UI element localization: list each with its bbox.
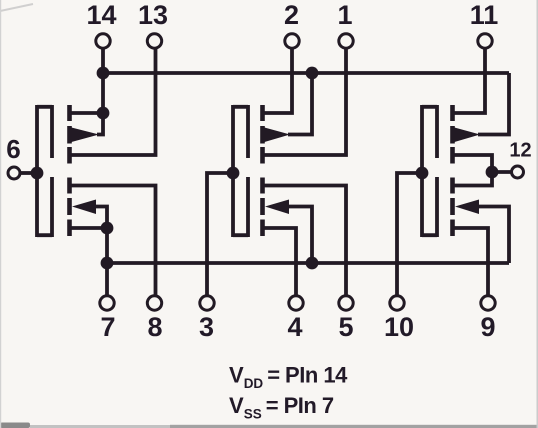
svg-text:VSS=PIn 7: VSS=PIn 7 (229, 393, 334, 422)
transistor N3 channel bars (450, 178, 455, 237)
wire N1 drain to pin 8 (70, 186, 156, 296)
svg-text:10: 10 (384, 312, 414, 342)
transistor P1 body arrow (72, 128, 100, 143)
svg-text:1: 1 (337, 0, 352, 30)
wire P2 drain to pin 1 (263, 49, 347, 155)
node VDD-mid junction dot (306, 67, 319, 80)
wire pin 6 to gate A (21, 171, 37, 175)
transistor P3 channel bars (450, 105, 455, 164)
wire node OUT to pin 12 (492, 170, 511, 174)
wire pin14 to node A (101, 49, 105, 113)
wire N3 body tie to VSS rail end (477, 207, 509, 264)
node VSS-left junction dot (101, 257, 114, 270)
pin 5 terminal circle (339, 296, 353, 310)
transistor N1 body arrow (72, 200, 96, 215)
svg-text:6: 6 (6, 134, 20, 164)
wire P3 body tie to VDD rail end (478, 73, 509, 135)
VDD rail wire (103, 71, 509, 75)
pin 9 terminal circle (481, 296, 495, 310)
pin 4 terminal circle (289, 296, 303, 310)
op P2 gate bracket (pair B) (233, 105, 248, 237)
svg-text:11: 11 (470, 0, 499, 30)
wire node OUT to N3 drain (453, 172, 493, 186)
pin 2 terminal circle (285, 34, 299, 48)
wire N3 source to pin 9 (453, 228, 489, 295)
pin 3 terminal circle (200, 296, 214, 310)
transistor N3 body arrow (455, 200, 479, 215)
pin 1 terminal circle (339, 34, 353, 48)
transistor P3 body arrow (455, 128, 481, 143)
transistor N2 channel bars (260, 178, 265, 237)
svg-text:2: 2 (284, 0, 299, 30)
wire P1 source lead (70, 111, 104, 115)
wire P3 source to pin 11 (453, 49, 486, 113)
svg-text:3: 3 (199, 312, 214, 342)
svg-text:VDD=PIn 14: VDD=PIn 14 (229, 363, 348, 392)
node OUT junction dot (486, 166, 499, 179)
svg-text:9: 9 (480, 312, 495, 342)
wire N1 body tie to node B (94, 207, 107, 229)
wire P2 body tie to VDD rail (288, 73, 312, 135)
transistor P2 body arrow (265, 128, 291, 143)
wire node B to pin 7 (105, 228, 109, 295)
pin 7 terminal circle (100, 296, 114, 310)
scan artifact top-left streak (0, 4, 33, 11)
wire pin 10 to gate C (397, 173, 422, 295)
node A junction dot (P1 source/body tie) (97, 107, 110, 120)
wire pin 3 to gate B (207, 173, 233, 295)
wire N2 source to pin 4 (263, 228, 297, 295)
wire N1 source lead (70, 226, 108, 230)
wire N2 drain to pin 5 (263, 186, 347, 296)
VSS rail wire (107, 261, 509, 265)
pin 11 terminal circle (478, 34, 492, 48)
transistor P2 channel bars (260, 105, 265, 164)
pin 14 terminal circle (96, 34, 110, 48)
svg-text:4: 4 (287, 312, 302, 342)
scan artifact left edge (0, 0, 1, 428)
node VSS-mid junction dot (306, 257, 319, 270)
op P1 gate bracket (pair A) (37, 105, 52, 237)
svg-text:13: 13 (138, 0, 168, 30)
scan artifact bottom-left smudge (0, 423, 30, 428)
svg-text:5: 5 (338, 312, 353, 342)
svg-text:12: 12 (509, 140, 531, 162)
node VDD-left junction dot (97, 67, 110, 80)
wire P1 body tie to node A (97, 113, 103, 135)
pin 12 terminal circle (512, 166, 524, 178)
svg-text:7: 7 (100, 312, 115, 342)
svg-text:8: 8 (147, 312, 162, 342)
scan artifact right edge (537, 0, 538, 428)
node gate B junction dot (227, 167, 240, 180)
node gate A junction dot (31, 167, 44, 180)
transistor P1 channel bars (67, 105, 72, 164)
pin 13 terminal circle (147, 34, 161, 48)
pin 10 terminal circle (390, 296, 404, 310)
op P3 gate bracket (pair C) (422, 105, 437, 237)
pin 8 terminal circle (147, 296, 161, 310)
node gate C junction dot (416, 167, 429, 180)
svg-text:14: 14 (86, 0, 116, 30)
node B junction dot (N1 source/body tie) (101, 222, 114, 235)
transistor N1 channel bars (67, 178, 72, 237)
wire N2 body tie to VSS rail (287, 207, 312, 264)
wire P3 drain to node OUT (453, 155, 493, 172)
scan artifact bottom band (30, 425, 170, 428)
pin 6 terminal circle (8, 167, 20, 179)
wire P1 drain to pin 13 (70, 49, 156, 155)
transistor N2 body arrow (265, 200, 289, 215)
wire P2 source to pin 2 (263, 49, 293, 113)
